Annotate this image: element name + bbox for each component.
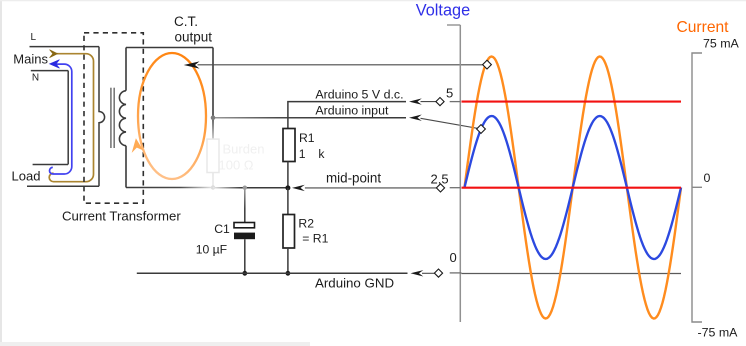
- capacitor C1 branch wire lower: [244, 239, 246, 273]
- wire L vertical with primary bump: [99, 47, 105, 187]
- svg-text:1: 1: [299, 147, 306, 161]
- CT output box right edge upper (to input tap): [212, 48, 214, 118]
- diamond marker on orange curve: [483, 60, 492, 69]
- orange loop arrowhead: [132, 138, 144, 153]
- annotation arrow at mid-point junction: [292, 185, 305, 191]
- node R2-GND junction: [286, 271, 291, 276]
- resistor R2: [283, 215, 295, 249]
- tick 2.5: [450, 187, 461, 189]
- circulating current loop (orange ellipse): [138, 53, 206, 179]
- svg-text:-75 mA: -75 mA: [698, 325, 739, 339]
- svg-text:output: output: [175, 30, 213, 45]
- neutral conductor (blue): [49, 64, 71, 174]
- node mid-point junction: [285, 185, 290, 190]
- svg-text:0: 0: [450, 250, 457, 265]
- voltage axis: [459, 25, 461, 322]
- svg-text:C.T.: C.T.: [174, 14, 198, 29]
- annotation line 5V to diamond: [421, 101, 438, 103]
- diamond marker at 5: [436, 97, 444, 105]
- resistor R1: [283, 129, 295, 162]
- blue current arrow: [50, 60, 60, 69]
- annotation arrow at input wire end: [409, 115, 422, 121]
- faint junction at box bottom corner: [211, 185, 215, 189]
- diamond marker at 2.5: [436, 184, 444, 192]
- svg-text:Arduino GND: Arduino GND: [315, 276, 394, 291]
- node C1 tap on mid-point wire: [243, 186, 247, 190]
- Arduino input wire: [213, 117, 406, 119]
- dashed CT boundary box: [84, 33, 143, 203]
- tick 5: [450, 101, 461, 103]
- svg-text:0: 0: [704, 171, 711, 185]
- svg-text:Current Transformer: Current Transformer: [62, 208, 181, 223]
- wire L bottom to Load: [27, 185, 99, 187]
- Arduino GND wire: [137, 272, 408, 274]
- wire mid-point to R2 top: [287, 188, 289, 215]
- CT output box left edge lower: [125, 146, 127, 188]
- red line 2.5V level: [462, 187, 682, 189]
- CT output box top edge: [126, 47, 213, 49]
- 5V wire (corner from R1 top): [288, 102, 406, 129]
- capacitor C1 bottom plate: [234, 233, 255, 240]
- svg-text:L: L: [31, 32, 37, 43]
- voltage axis top tick: [447, 24, 460, 26]
- svg-text:mid-point: mid-point: [326, 171, 381, 186]
- wire R1 bottom to mid-point junction: [287, 162, 289, 189]
- svg-text:N: N: [32, 72, 39, 83]
- annotation arrow into loop (black): [184, 61, 200, 68]
- svg-text:Voltage: Voltage: [416, 1, 470, 19]
- wire N vertical: [67, 71, 69, 165]
- annotation line mid-point to diamond: [305, 187, 437, 189]
- svg-text:Arduino 5 V d.c.: Arduino 5 V d.c.: [315, 88, 403, 102]
- annotation line GND to diamond: [422, 272, 435, 274]
- svg-text:Arduino input: Arduino input: [315, 103, 389, 117]
- secondary winding coil: [119, 91, 126, 146]
- annotation line input to blue-curve diamond: [421, 118, 479, 128]
- annotation arrow at 5V wire end: [409, 98, 422, 104]
- current bracket middle tick: [692, 186, 702, 188]
- input tap junction: [211, 115, 216, 120]
- svg-text:10 µF: 10 µF: [196, 242, 227, 256]
- wire N bottom to Load: [33, 164, 68, 166]
- svg-text:Mains: Mains: [13, 52, 48, 67]
- CT output box bottom edge (fades right): [126, 187, 213, 189]
- brown current arrow: [50, 50, 58, 58]
- svg-text:R2: R2: [298, 217, 314, 231]
- CT output box right edge lower (faded toward burden): [212, 118, 214, 188]
- zero-volt gray line: [462, 273, 682, 275]
- wire R2 bottom to GND: [287, 248, 289, 273]
- CT output box left edge upper: [125, 48, 127, 91]
- wire L top (Mains live): [30, 46, 100, 48]
- faded burden resistor: [207, 139, 219, 172]
- waveform: current (orange sine): [465, 57, 682, 319]
- annotation line loop to waveform diamond: [198, 64, 483, 66]
- tick 0: [450, 272, 462, 274]
- svg-text:100 Ω: 100 Ω: [219, 158, 254, 173]
- annotation arrow at GND wire end: [411, 270, 424, 276]
- svg-text:75 mA: 75 mA: [703, 37, 740, 51]
- red line 5V level: [462, 101, 682, 103]
- current bracket axis: [692, 53, 702, 322]
- svg-text:Load: Load: [12, 169, 41, 184]
- svg-text:C1: C1: [214, 222, 230, 236]
- svg-text:k: k: [318, 147, 325, 161]
- mid-point wire from CT box to divider (fades in from left): [213, 187, 288, 189]
- svg-text:Burden: Burden: [223, 142, 265, 157]
- diamond marker on blue curve: [477, 125, 486, 134]
- svg-text:Current: Current: [677, 19, 730, 36]
- svg-text:5: 5: [446, 86, 453, 101]
- transformer core bars: [110, 88, 112, 148]
- live conductor (brown/olive): [49, 54, 93, 182]
- svg-text:= R1: = R1: [302, 231, 328, 245]
- node C1-GND junction: [242, 271, 247, 276]
- svg-text:R1: R1: [299, 131, 315, 145]
- capacitor C1 branch wire upper: [244, 188, 246, 223]
- wire N top (Mains neutral): [31, 70, 68, 72]
- diamond marker at 0: [434, 269, 442, 277]
- waveform: voltage (blue sine): [465, 116, 682, 259]
- capacitor C1 top plate: [234, 223, 255, 228]
